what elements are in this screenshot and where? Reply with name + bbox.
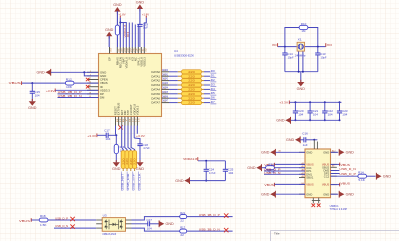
resistor R10 1M [299, 26, 308, 30]
wire DATA2 to resistor [169, 80, 178, 82]
svg-text:VDD3.3: VDD3.3 [136, 105, 140, 115]
svg-text:USB_DIR: USB_DIR [126, 174, 130, 191]
wire DATA1 to resistor [169, 75, 178, 77]
resistor R17 22 [180, 229, 187, 233]
svg-text:D2: D2 [211, 78, 216, 82]
ground (USBC bottom-left) [270, 192, 275, 197]
svg-text:SBU1: SBU1 [306, 176, 314, 180]
ground (CC1 pulldown) [256, 165, 261, 170]
pin DP (left) [87, 93, 99, 95]
ground (C18) [139, 160, 141, 162]
pin RBIAS (top) [116, 47, 118, 54]
svg-text:10pF: 10pF [288, 55, 294, 59]
wire resistor to label D7 [204, 102, 210, 104]
resistor R6 220 [178, 88, 182, 90]
pin GND (left) [87, 71, 99, 73]
wire crystal to XO [305, 46, 326, 48]
svg-text:A8: A8 [301, 175, 303, 178]
capacitor C19 1uF [137, 23, 142, 25]
net label USB_D_N (right) [331, 170, 340, 172]
capacitor C13 10pF [315, 52, 320, 54]
wire VBUS to R18 [31, 219, 39, 221]
wire resistor to label D4 [204, 88, 210, 90]
svg-text:XI: XI [272, 43, 277, 47]
svg-text:C16: C16 [302, 132, 308, 136]
USBC pin VBUS (right) [331, 163, 337, 165]
svg-text:DATA5: DATA5 [151, 92, 160, 96]
svg-text:VBUS: VBUS [306, 183, 314, 187]
svg-text:DATA6: DATA6 [162, 94, 168, 98]
svg-text:U4: U4 [174, 49, 178, 53]
pin NC (top) [134, 47, 136, 54]
resistor R21 22 [180, 215, 187, 219]
svg-text:VBUS: VBUS [341, 182, 351, 186]
wire VDDA1.8 [125, 23, 127, 48]
svg-text:22: 22 [180, 218, 184, 222]
svg-text:VBUS: VBUS [322, 183, 330, 187]
USBC pin CC1 (left) [299, 167, 305, 169]
USBC pin DP2 (right) [331, 173, 337, 175]
USBC pin CC2 (right) [331, 175, 337, 177]
resistor R14 5.1K [358, 174, 367, 178]
no-connect X (USB_3B_D_P) [224, 213, 228, 217]
junction [205, 160, 207, 162]
wire +1.8V branch [120, 22, 126, 24]
ground rail under crystal [285, 71, 318, 73]
wire DATA7 to resistor [169, 102, 178, 104]
wire EP to ground [108, 36, 110, 47]
wire to C14 [284, 47, 286, 53]
pin EP (top) [109, 47, 111, 54]
ground (decoupling) [285, 118, 290, 123]
svg-text:D5: D5 [211, 91, 216, 95]
USBC pin DM2 (right) [331, 170, 337, 172]
junction [317, 46, 319, 48]
svg-text:GND: GND [136, 1, 145, 5]
svg-text:R10: R10 [301, 22, 307, 26]
svg-text:GND: GND [112, 167, 121, 171]
wire R15 to RBIAS pin [116, 35, 118, 47]
svg-text:GND: GND [37, 71, 46, 75]
pin DIR (bottom) [124, 117, 126, 126]
ground (C15) [31, 99, 33, 101]
svg-text:24MHz: 24MHz [295, 54, 307, 58]
capacitor C24 4.7uF [205, 161, 207, 170]
USBC pin GND (left) [299, 151, 305, 153]
svg-text:104: 104 [35, 93, 40, 97]
svg-text:+3.3V: +3.3V [46, 89, 55, 93]
no-connect X shell pin [317, 204, 321, 208]
svg-text:C27: C27 [146, 218, 152, 222]
wire R12 to VBUS pin [74, 82, 98, 84]
ground rail [190, 180, 226, 182]
resistor R12 10K [65, 81, 74, 85]
capacitor C23 104 [339, 101, 341, 103]
USBC pin VBUS (right) [331, 184, 337, 186]
ground (USBC top-left) [270, 150, 275, 155]
wire VBUS to R12 [22, 82, 65, 84]
wire rail to ground [300, 72, 302, 82]
wire XI [128, 23, 130, 48]
svg-text:U3: U3 [103, 214, 107, 218]
svg-text:TYPE-C 2.0-16P: TYPE-C 2.0-16P [330, 207, 348, 211]
svg-text:USB_3B_D_N: USB_3B_D_N [199, 228, 220, 232]
wire +3.3V rail [290, 101, 342, 103]
resistor R8 220 [178, 97, 182, 99]
USBC pin DP1 (left) [299, 170, 305, 172]
pin VDD3.3 (bottom) [136, 117, 138, 126]
svg-text:D4: D4 [211, 87, 216, 91]
net label VBUS (right lower) [331, 184, 340, 186]
wire pin col [134, 25, 136, 48]
svg-text:104: 104 [105, 137, 110, 141]
svg-text:GND: GND [105, 28, 114, 32]
wire U3 pin5 to C27 [132, 223, 148, 225]
svg-text:USB_3B_D_P: USB_3B_D_P [199, 213, 220, 217]
wire C14 to rail [284, 55, 286, 72]
pin XI (top) [128, 47, 130, 54]
capacitor C17 104 [105, 133, 107, 138]
USBC pin SBU1 (left) [299, 177, 305, 179]
svg-text:CC2: CC2 [324, 174, 330, 178]
no-connect X shell pin [312, 204, 316, 208]
svg-text:GND: GND [166, 222, 175, 226]
wire USB_D_N to U3 pin3 [54, 227, 96, 229]
pin DATA4 (right) [162, 88, 170, 90]
USBC pin VBUS (left) [299, 183, 305, 185]
svg-text:R14: R14 [358, 170, 364, 174]
svg-text:104: 104 [147, 226, 152, 230]
svg-text:GND: GND [28, 106, 37, 110]
svg-text:4.7uF: 4.7uF [209, 171, 216, 175]
svg-text:VDDA1.8: VDDA1.8 [183, 157, 197, 161]
svg-text:220: 220 [188, 88, 195, 92]
svg-text:EP: EP [108, 57, 112, 61]
junction (C15 tap) [31, 82, 33, 84]
resistor R9 220 [178, 102, 182, 104]
wire resistor to label D0 [204, 71, 210, 73]
svg-text:1M: 1M [301, 29, 305, 33]
pin VDD3.3 (top) [143, 47, 145, 54]
svg-text:GND: GND [286, 138, 295, 142]
wire CC2 to R14 [331, 175, 359, 177]
net label USB_D_P (right) [331, 173, 340, 175]
U3 pins right [126, 219, 132, 221]
svg-text:USB_D_P: USB_D_P [339, 172, 356, 176]
capacitor C20 104 [294, 101, 296, 103]
ground (crystal) [300, 80, 302, 82]
junction [83, 71, 85, 73]
resistor R18 1.5K [39, 218, 48, 222]
ground (C27) [159, 221, 164, 226]
svg-text:VBUS: VBUS [9, 81, 21, 85]
wire C19 to VDD1.8 pin [139, 26, 141, 47]
junction [119, 22, 121, 24]
svg-text:D0: D0 [211, 69, 216, 73]
pin CLKOUT (bottom) [130, 117, 132, 126]
ground (VDDA1.8) [184, 178, 189, 183]
wire crystal loop left [285, 28, 299, 47]
svg-text:+3.3V: +3.3V [279, 100, 288, 104]
svg-text:220: 220 [133, 157, 137, 164]
no-connect X on CPEN [86, 78, 89, 81]
pin SPK_L (top) [137, 47, 139, 54]
wire R17 to label [187, 230, 233, 232]
svg-text:D7: D7 [211, 100, 216, 104]
junction (RESET) [115, 134, 117, 136]
pin DATA5 (right) [162, 93, 170, 95]
U3 internal diodes [105, 220, 124, 230]
shell pins (bottom) [312, 198, 314, 204]
svg-text:+3.3V: +3.3V [136, 134, 145, 138]
no-connect X on EXTVBUS [119, 125, 123, 129]
junction [284, 46, 286, 48]
svg-text:DATA2: DATA2 [151, 79, 160, 83]
svg-text:VDD3.3: VDD3.3 [142, 57, 146, 67]
wire rail end down [341, 101, 343, 103]
svg-text:USBLC6-2SC6: USBLC6-2SC6 [102, 232, 116, 236]
resistor R15 8.06K (RBIAS) [115, 25, 119, 35]
U3 pins left [96, 219, 102, 221]
svg-text:D6: D6 [211, 96, 216, 100]
pin VBAT (top) [122, 47, 124, 54]
svg-text:DATA4: DATA4 [162, 86, 168, 90]
svg-text:GND: GND [323, 192, 329, 196]
net label VBUS (right) [331, 163, 340, 165]
wire DP1 [264, 170, 305, 172]
svg-text:USB_NXT: USB_NXT [120, 173, 124, 190]
pin CPEN (left) [87, 79, 99, 81]
crystal ground pins [298, 52, 300, 72]
wire resistor to label D2 [204, 80, 210, 82]
wire R13 to ground [115, 154, 117, 163]
svg-text:USB_D_P: USB_D_P [55, 216, 68, 220]
pin ID (left) [87, 86, 99, 88]
svg-text:R18: R18 [40, 214, 46, 218]
USBC pin GND (left) [299, 193, 305, 195]
capacitor C25 104 [224, 161, 226, 170]
svg-text:VBUS: VBUS [264, 183, 274, 187]
wire C15 to ground [31, 93, 33, 101]
ground (USBC bottom-right) [331, 193, 339, 195]
svg-text:D1: D1 [211, 74, 216, 78]
pin DATA6 (right) [162, 97, 170, 99]
pin NXT (bottom) [121, 117, 123, 126]
wire C18 to ground [139, 146, 141, 163]
ground (CC2 pulldown) [376, 174, 381, 179]
pin EXTVBUS (bottom) [118, 117, 120, 126]
svg-text:R17: R17 [180, 226, 185, 230]
svg-text:GND: GND [261, 151, 270, 155]
svg-text:GND: GND [247, 166, 256, 170]
resistor R13 10K [114, 144, 118, 153]
wire XI to crystal [278, 46, 297, 48]
svg-text:220: 220 [188, 101, 195, 105]
wire VDDA1.8 pin to C18 [133, 126, 135, 139]
pin DATA2 (right) [162, 80, 170, 82]
shell pins (top) [313, 140, 315, 149]
wire resistor to label D3 [204, 84, 210, 86]
resistor R7 220 [178, 93, 182, 95]
svg-text:220: 220 [188, 79, 195, 83]
wire DATA0 to resistor [169, 71, 178, 73]
svg-text:GND: GND [113, 3, 122, 7]
svg-text:220: 220 [188, 83, 195, 87]
svg-text:DATA7: DATA7 [162, 99, 168, 103]
wire +1.8V to VDD3.3 pin [144, 18, 146, 47]
IC U4 USB3300-EZK body [99, 54, 162, 117]
pin VBUS (left) [87, 82, 99, 84]
wire R21 to label [187, 216, 233, 218]
no-connect X (USB_3B_D_N) [224, 228, 228, 232]
svg-text:22: 22 [180, 233, 184, 237]
wire C27 to ground [150, 223, 160, 225]
svg-text:DATA7: DATA7 [151, 101, 160, 105]
svg-text:4.7uF: 4.7uF [143, 146, 150, 150]
resistor pack R-ULPI (4 vertical resistors) [121, 151, 125, 169]
svg-text:A1: A1 [279, 149, 281, 152]
svg-text:104: 104 [228, 171, 233, 175]
svg-text:USB_D_N: USB_D_N [55, 224, 68, 228]
ground (IC GND pins) [46, 70, 51, 75]
svg-text:GND: GND [136, 167, 145, 171]
svg-text:220: 220 [188, 96, 195, 100]
wire ground to R15 [116, 11, 118, 25]
svg-text:VBUS: VBUS [19, 219, 30, 223]
svg-text:Title: Title [274, 231, 280, 235]
capacitor C14 10pF [282, 52, 287, 54]
wire DATA4 to resistor [169, 88, 178, 90]
USBC pin VBUS (left) [299, 163, 305, 165]
svg-text:DATA1: DATA1 [162, 72, 168, 76]
svg-text:GND: GND [323, 150, 329, 154]
wire +1.8V to REG_EN [119, 18, 121, 47]
resistor R5 220 [178, 84, 182, 86]
wire +3.3V to C17 [97, 134, 106, 136]
svg-text:104: 104 [298, 113, 303, 117]
capacitor C16 1uF (shield) [300, 139, 304, 141]
wire VDDA1.8 rail [198, 160, 225, 162]
USBC pin GND (right) [331, 151, 337, 153]
svg-text:DATA0: DATA0 [151, 70, 160, 74]
svg-text:220: 220 [188, 70, 195, 74]
ground (shield) [295, 137, 300, 142]
wire C13 to rail [317, 55, 319, 72]
svg-text:DATA1: DATA1 [151, 74, 160, 78]
pin VDDA1.8 (bottom) [133, 117, 135, 126]
svg-text:C17: C17 [104, 129, 110, 133]
svg-text:GND: GND [306, 150, 312, 154]
pin DM (left) [87, 97, 99, 99]
pin VDDA1.8 (top) [125, 47, 127, 54]
svg-text:R21: R21 [180, 211, 185, 215]
connector USBC1 TYPE-C body [305, 149, 331, 198]
svg-text:104: 104 [313, 113, 318, 117]
svg-text:+3.3V: +3.3V [87, 134, 96, 138]
wire to C13 [317, 47, 319, 53]
pin XO (top) [131, 47, 133, 54]
wire C16 to shell pins [306, 139, 315, 141]
no-connect X on ID [86, 85, 89, 88]
wire resistor to label D5 [204, 93, 210, 95]
svg-text:DATA3: DATA3 [151, 83, 160, 87]
wire R11 to CC1 [274, 167, 305, 169]
svg-text:GND: GND [297, 87, 306, 91]
ESD protection U3 USBLC6-2SC6 body [102, 218, 125, 232]
svg-text:D3: D3 [211, 82, 216, 86]
wire DATA6 to resistor [169, 97, 178, 99]
wire ground to GND pins [51, 71, 99, 73]
resistor R4 220 [178, 80, 182, 82]
svg-text:GND: GND [306, 192, 312, 196]
wire junction to R13 [115, 135, 117, 144]
wire C17 to junction [108, 134, 116, 136]
wire XO [131, 23, 133, 48]
svg-text:A12: A12 [332, 149, 335, 152]
wire U3 pin6 jog up [132, 217, 181, 220]
wire DM [58, 97, 99, 99]
capacitor C21 104 [309, 101, 311, 103]
svg-text:R11: R11 [269, 163, 275, 167]
wire VBAT [122, 23, 124, 48]
capacitor C15 104 [30, 90, 35, 92]
svg-text:GND: GND [175, 179, 184, 183]
svg-text:B8: B8 [332, 165, 334, 167]
resistor R2 220 [178, 71, 182, 73]
svg-text:DM: DM [100, 96, 105, 100]
svg-text:R12: R12 [66, 78, 72, 82]
wire DATA3 to resistor [169, 84, 178, 86]
capacitor C27 104 [147, 221, 149, 226]
svg-text:104: 104 [342, 113, 347, 117]
svg-text:+1.8V: +1.8V [118, 13, 126, 17]
svg-text:DATA4: DATA4 [151, 88, 160, 92]
wires ULPI NXT DIR STP CLKOUT [122, 126, 124, 151]
svg-text:220: 220 [188, 74, 195, 78]
pin VDD1.8 (top) [140, 47, 142, 54]
wire RESET pin down [115, 126, 117, 135]
no-connect X (USB_D_P) [70, 217, 74, 221]
svg-text:1uF: 1uF [143, 25, 148, 29]
wire U3 pin4 jog down [132, 228, 181, 231]
svg-text:DATA3: DATA3 [162, 81, 168, 85]
title block frame [271, 231, 399, 241]
svg-text:GND: GND [346, 151, 355, 155]
wire pin col [137, 25, 139, 48]
resistor R11 5.1K [266, 166, 275, 170]
wire DATA5 to resistor [169, 93, 178, 95]
svg-text:VBUS: VBUS [341, 163, 351, 167]
wire DP [58, 93, 99, 95]
wire R14 to ground [367, 175, 376, 177]
svg-text:USB_D_N: USB_D_N [339, 167, 356, 171]
wire GND pin jog [84, 72, 98, 76]
svg-text:104: 104 [328, 113, 333, 117]
wire C15 branch [31, 83, 33, 91]
pin DATA1 (right) [162, 75, 170, 77]
svg-text:GND: GND [346, 192, 355, 196]
pin GND (left) [87, 75, 99, 77]
svg-text:1uF: 1uF [303, 143, 308, 147]
wire R18 to U3 pin1 [48, 219, 96, 221]
pin VDD3.3 (left) [87, 89, 99, 91]
svg-text:1.5K: 1.5K [40, 223, 47, 227]
svg-text:5.1K: 5.1K [358, 178, 365, 182]
ground (R13) [115, 160, 117, 162]
USBC pin DM1 (left) [299, 173, 305, 175]
wire +3.3V to VDD3.3 pin [55, 89, 98, 91]
wire ground to C19 [139, 9, 141, 25]
